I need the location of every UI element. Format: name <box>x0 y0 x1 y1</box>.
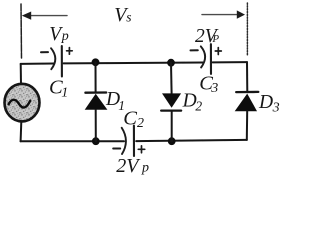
Vs right arrow <box>202 10 245 18</box>
wire D1 branch lower <box>95 110 97 141</box>
svg-text:1: 1 <box>61 86 68 101</box>
wire right rail lower <box>246 111 248 140</box>
capacitor C2 <box>122 126 134 156</box>
wire top segment 1 <box>21 63 54 65</box>
label 2Vp (top right) <box>195 26 219 47</box>
svg-text:p: p <box>141 161 149 176</box>
svg-text:D: D <box>258 92 273 113</box>
wire left rail upper <box>20 64 22 85</box>
Vs measurement extension line left <box>20 4 23 58</box>
svg-text:3: 3 <box>272 101 280 116</box>
svg-text:2: 2 <box>137 116 144 131</box>
wire bottom segment 1 <box>21 140 124 142</box>
label C2 <box>123 108 144 132</box>
diode D3 <box>235 92 259 111</box>
svg-text:2V: 2V <box>116 155 141 177</box>
capacitor C1 <box>51 46 62 77</box>
node junction top 2 <box>167 59 175 67</box>
capacitor C3 <box>201 44 211 74</box>
diode D1 <box>85 93 108 110</box>
C2 minus sign <box>113 148 120 150</box>
label D3 <box>258 92 280 115</box>
svg-text:C: C <box>123 108 137 130</box>
svg-text:P: P <box>211 33 219 45</box>
svg-text:p: p <box>61 29 69 44</box>
diode D2 <box>161 93 181 110</box>
node junction bottom 1 <box>92 137 100 145</box>
svg-text:2: 2 <box>195 99 202 114</box>
wire bottom segment 2 <box>136 140 247 141</box>
C1 minus sign <box>41 51 48 53</box>
wire D2 branch lower <box>171 111 173 142</box>
label 2Vp (bottom) <box>116 155 149 177</box>
svg-text:1: 1 <box>118 98 125 113</box>
wire top segment 3 <box>213 61 247 63</box>
label D1 <box>105 89 125 113</box>
label Vs <box>114 4 131 26</box>
svg-text:s: s <box>126 9 131 24</box>
label Vp (top) <box>49 24 69 45</box>
node junction top 1 <box>92 58 100 66</box>
C2 plus sign <box>138 146 144 153</box>
label C1 <box>49 76 68 100</box>
Vs left arrow <box>22 12 67 20</box>
C3 minus sign <box>191 49 198 51</box>
node junction bottom 2 <box>168 137 176 145</box>
ac source <box>5 84 40 122</box>
wire top segment 2 <box>64 62 203 65</box>
C1 plus sign <box>67 48 73 55</box>
wire right rail upper <box>246 62 248 92</box>
wire D2 branch upper <box>170 63 173 93</box>
C3 plus sign <box>215 48 221 55</box>
wire D1 branch upper <box>95 62 97 92</box>
svg-text:3: 3 <box>210 81 218 96</box>
label C3 <box>199 73 218 97</box>
wire left rail lower <box>20 122 23 142</box>
label D2 <box>182 91 203 114</box>
Vs measurement extension line right <box>246 3 248 55</box>
